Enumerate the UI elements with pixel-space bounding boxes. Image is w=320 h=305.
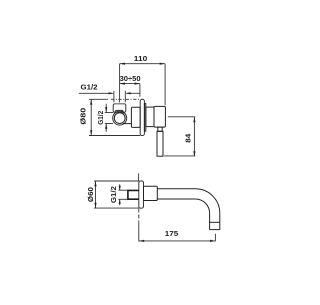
spout inner bend arc [195, 199, 209, 213]
svg-text:G1/2: G1/2 [81, 85, 98, 92]
svg-text:84: 84 [185, 134, 192, 143]
dimension 84 line [193, 117, 195, 156]
spout outer bend arc [195, 189, 219, 213]
svg-text:Ø80: Ø80 [81, 108, 88, 125]
pipe extension stubs [119, 189, 128, 191]
svg-text:G1/2: G1/2 [111, 186, 118, 203]
spout base [144, 186, 158, 200]
dimension 84 arrows [193, 117, 195, 122]
dimension 175 arrows [139, 240, 144, 242]
projection stub above plate [138, 174, 140, 182]
G1/2 side dim line bottom segment with arrow [105, 124, 107, 132]
84 bottom extension line [164, 155, 195, 157]
inlet centerline / left extension [119, 64, 121, 103]
spout tube top edge [157, 188, 195, 190]
supply pipe (bold) [128, 190, 139, 199]
inlet width extension ticks [113, 91, 115, 103]
Ø80 bottom extension line [89, 135, 140, 137]
lower G1/2 dim line bottom segment [119, 199, 121, 205]
wall plate (top view) [140, 99, 144, 135]
dimension 30÷50 arrows [120, 83, 125, 85]
dimension 110 arrows [120, 63, 125, 65]
cartridge circle inner [114, 113, 125, 124]
dimension Ø60 line [95, 181, 97, 208]
handle adapter [146, 107, 154, 127]
handle knob [154, 106, 165, 127]
body tangent line under circle [123, 123, 132, 125]
Ø80 top extension line [89, 98, 108, 100]
84 top extension line [168, 116, 196, 118]
svg-text:30÷50: 30÷50 [120, 76, 141, 83]
dimension 175 line [139, 240, 216, 242]
spout tube bottom edge [157, 198, 195, 200]
dimension 110 line [120, 63, 166, 65]
Ø60 top extension [94, 180, 139, 182]
collar behind plate [144, 104, 145, 132]
handle stem [157, 131, 163, 156]
dimension Ø60 arrows [94, 181, 96, 186]
top port G1/2 [113, 104, 126, 113]
svg-text:G1/2: G1/2 [98, 111, 105, 125]
cartridge circle outer [113, 111, 127, 125]
Ø60 bottom extension [94, 207, 139, 209]
dimension Ø80 arrows [90, 99, 92, 104]
G1/2 side dim line top segment with arrow [105, 104, 107, 113]
spout tip bottom [210, 229, 220, 231]
lower G1/2 dim line top segment [119, 184, 121, 190]
spout tip left edge [209, 213, 211, 229]
175 right extension line [214, 234, 216, 242]
body sleeve [131, 107, 140, 127]
port inner neck [115, 110, 123, 113]
port top edge gray highlight [115, 103, 125, 105]
svg-text:175: 175 [165, 231, 179, 238]
handle neck [158, 127, 162, 131]
175 left extension line [138, 209, 140, 223]
G1/2 side dim extension lines [105, 112, 113, 114]
spout tip right edge [219, 213, 221, 229]
right extension of 30÷50 [139, 84, 141, 97]
right extension of 110 [164, 64, 166, 105]
G1/2 leader line left with arrow [79, 92, 113, 94]
G1/2 leader line right with arrow [127, 92, 140, 94]
svg-text:Ø60: Ø60 [88, 187, 95, 202]
wall plate (side view) [139, 181, 144, 208]
dimension Ø80 line [90, 99, 92, 135]
aerator band line [210, 221, 220, 223]
svg-text:110: 110 [134, 56, 148, 63]
dimension 30÷50 line [120, 83, 140, 85]
